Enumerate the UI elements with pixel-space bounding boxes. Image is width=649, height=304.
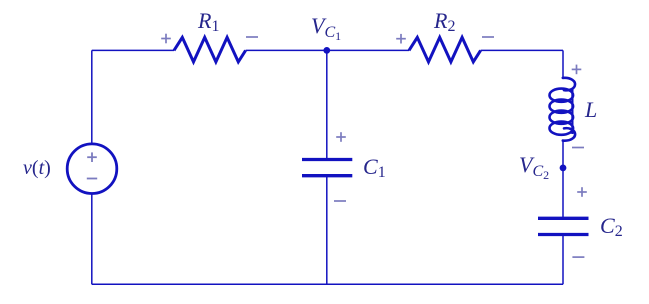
inductor L loop 3 [550,111,574,124]
node VC1 dot [323,47,330,54]
minus C1 [334,200,346,202]
svg-text:L: L [584,97,597,122]
svg-text:C2: C2 [600,213,623,240]
svg-text:v(t): v(t) [23,157,51,179]
resistor R1 [174,37,246,62]
minus C2 [572,256,584,258]
plus R1 [161,34,171,44]
inductor L loop 1 [550,89,574,102]
inductor L loop 2 [550,100,574,113]
resistor R2 [409,37,481,62]
wire middle vertical top [326,50,328,159]
wire left vertical bottom [91,194,93,285]
voltage source minus [87,178,97,180]
wire top left segment [92,49,174,51]
minus L [572,147,584,149]
inductor L exit hook [563,128,575,141]
plus R2 [396,34,406,44]
plus L [572,65,582,75]
inductor L right connector [571,88,573,134]
wire top right segment [481,49,563,51]
svg-text:R2: R2 [433,8,455,35]
voltage source plus [87,152,97,162]
wire top mid segment [246,49,409,51]
plus C2 [577,187,587,197]
wire left vertical top [91,50,93,143]
svg-text:R1: R1 [197,8,219,35]
inductor L loop 4 [550,122,574,135]
svg-text:C1: C1 [363,154,386,181]
inductor L entry hook [563,78,575,91]
node VC2 dot [560,165,567,172]
wire middle vertical bottom [326,176,328,285]
capacitor C2 top plate [538,217,589,220]
wire right between coil and node [562,140,564,218]
minus R2 [482,36,494,38]
capacitor C2 bottom plate [538,233,589,236]
wire right bottom [562,235,564,285]
svg-text:VC2: VC2 [519,152,549,182]
plus C1 [336,132,346,142]
svg-text:VC1: VC1 [311,13,341,43]
capacitor C1 bottom plate [302,174,352,177]
wire right vertical above inductor [562,50,564,78]
voltage source v(t) circle [67,144,117,194]
capacitor C1 top plate [302,158,352,161]
wire bottom [92,283,563,285]
minus R1 [246,36,258,38]
